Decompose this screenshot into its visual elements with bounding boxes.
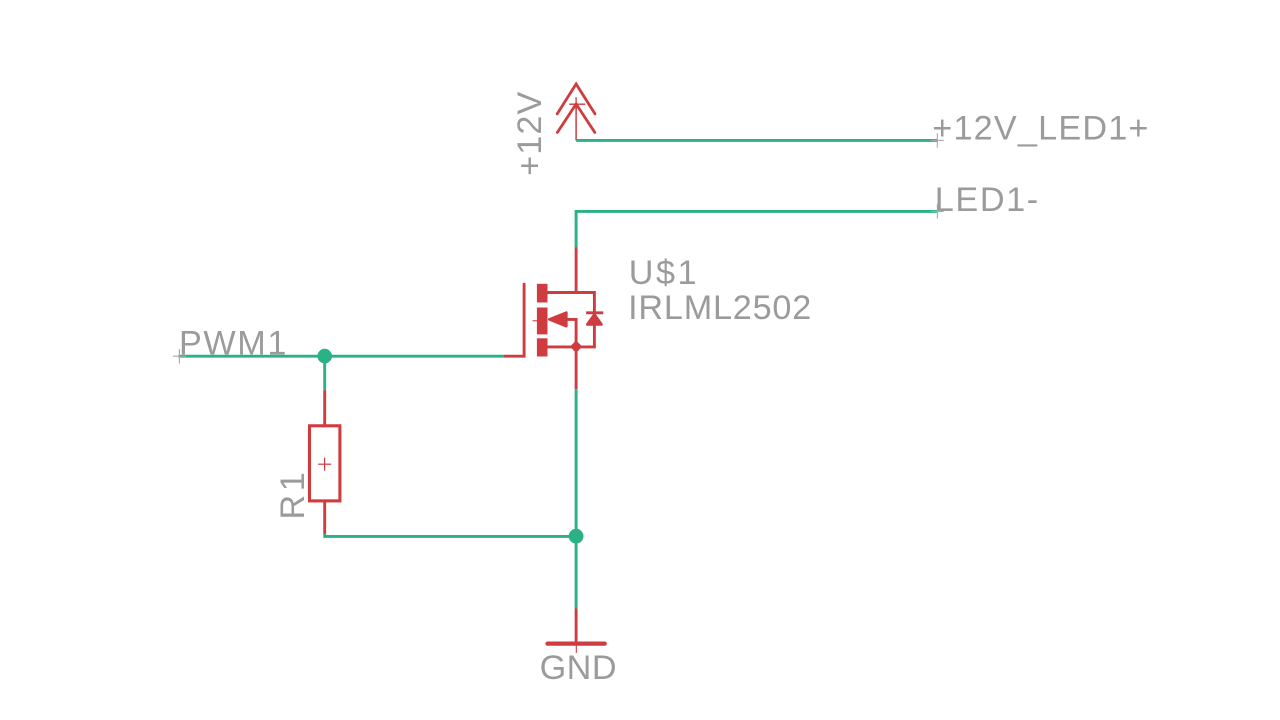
svg-text:+12V_LED1+: +12V_LED1+	[932, 110, 1149, 148]
transistor U$1 channel bars	[537, 284, 548, 357]
wire source vertical	[575, 389, 578, 608]
transistor U$1 gate pin tick	[533, 320, 538, 322]
junction node source/GND	[569, 529, 584, 544]
transistor U$1 drain/source connection frame	[542, 293, 594, 347]
transistor U$1 body diode	[586, 313, 603, 325]
resistor R1	[310, 426, 340, 501]
pin-origin cross PWM1	[173, 349, 186, 364]
svg-text:R1: R1	[274, 469, 312, 520]
svg-text:+12V: +12V	[511, 91, 549, 176]
ground GND symbol	[548, 636, 605, 653]
wire net LED1- horizontal	[576, 210, 937, 213]
transistor U$1 drain pin	[575, 248, 578, 293]
transistor U$1 gate pin and gate plate	[504, 284, 524, 356]
svg-text:LED1-: LED1-	[935, 181, 1040, 219]
svg-text:U$1: U$1	[629, 254, 699, 292]
svg-text:PWM1: PWM1	[179, 324, 288, 362]
svg-text:IRLML2502: IRLML2502	[628, 289, 812, 327]
svg-text:GND: GND	[540, 649, 617, 687]
wire net LED1- vertical	[575, 210, 578, 248]
transistor U$1 body arrow	[549, 313, 576, 347]
wire R1 bottom to source elbow	[325, 534, 576, 537]
junction diamond source	[571, 341, 582, 352]
junction node PWM1/R1	[317, 349, 332, 364]
wire net +12V_LED1+	[576, 139, 938, 142]
pin-origin cross LED1-	[931, 204, 944, 219]
wire net PWM1	[178, 355, 504, 358]
resistor R1 bottom pin	[323, 501, 326, 534]
ground GND pin	[575, 609, 578, 644]
resistor R1 top pin	[323, 390, 326, 427]
transistor U$1 source pin	[575, 347, 578, 389]
wire R1 top	[323, 356, 326, 390]
pin-origin cross +12V_LED1+	[931, 133, 944, 148]
supply +12V symbol	[557, 84, 595, 140]
